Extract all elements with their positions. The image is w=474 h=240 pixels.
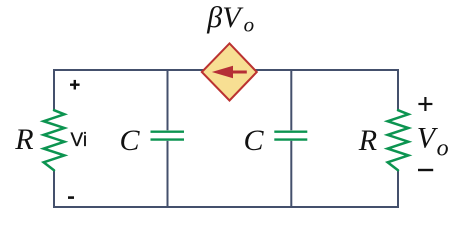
svg-text:Vi: Vi	[71, 130, 88, 151]
svg-text:R: R	[14, 123, 33, 156]
svg-text:βV: βV	[206, 1, 244, 34]
svg-text:C: C	[244, 124, 265, 157]
svg-text:o: o	[437, 136, 449, 162]
svg-text:o: o	[244, 13, 255, 37]
svg-text:C: C	[120, 124, 141, 157]
svg-text:R: R	[358, 124, 377, 157]
